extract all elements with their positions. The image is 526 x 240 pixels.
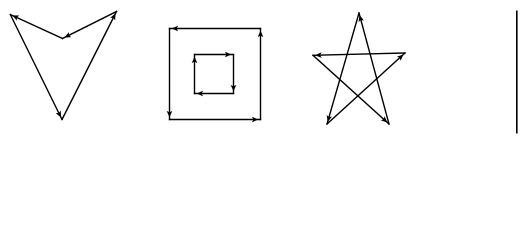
outer square top edge (right to left) <box>170 28 261 30</box>
outer square left edge (top to bottom) <box>169 29 171 120</box>
star segment bottom-left to right <box>327 53 405 124</box>
star segment bottom-right to top <box>359 13 389 124</box>
dart polygon segment bottom to TR <box>62 12 117 120</box>
dart polygon segment TL to bottom <box>10 15 62 120</box>
star segment top to bottom-left <box>327 13 359 124</box>
dart polygon segment middle notch to TL <box>10 15 62 39</box>
outer square bottom edge (left to right) <box>170 119 261 121</box>
dart polygon segment TR to middle notch <box>63 12 117 39</box>
inner square bottom edge (right to left) <box>195 93 234 95</box>
outer square right edge (bottom to top) <box>260 29 262 120</box>
inner square right edge (top to bottom) <box>233 55 235 94</box>
inner square top edge (left to right) <box>195 54 234 56</box>
star segment left to bottom-right <box>313 55 389 124</box>
star segment right to left <box>313 53 405 55</box>
vertical divider line at right <box>516 11 518 134</box>
inner square left edge (bottom to top) <box>194 55 196 94</box>
